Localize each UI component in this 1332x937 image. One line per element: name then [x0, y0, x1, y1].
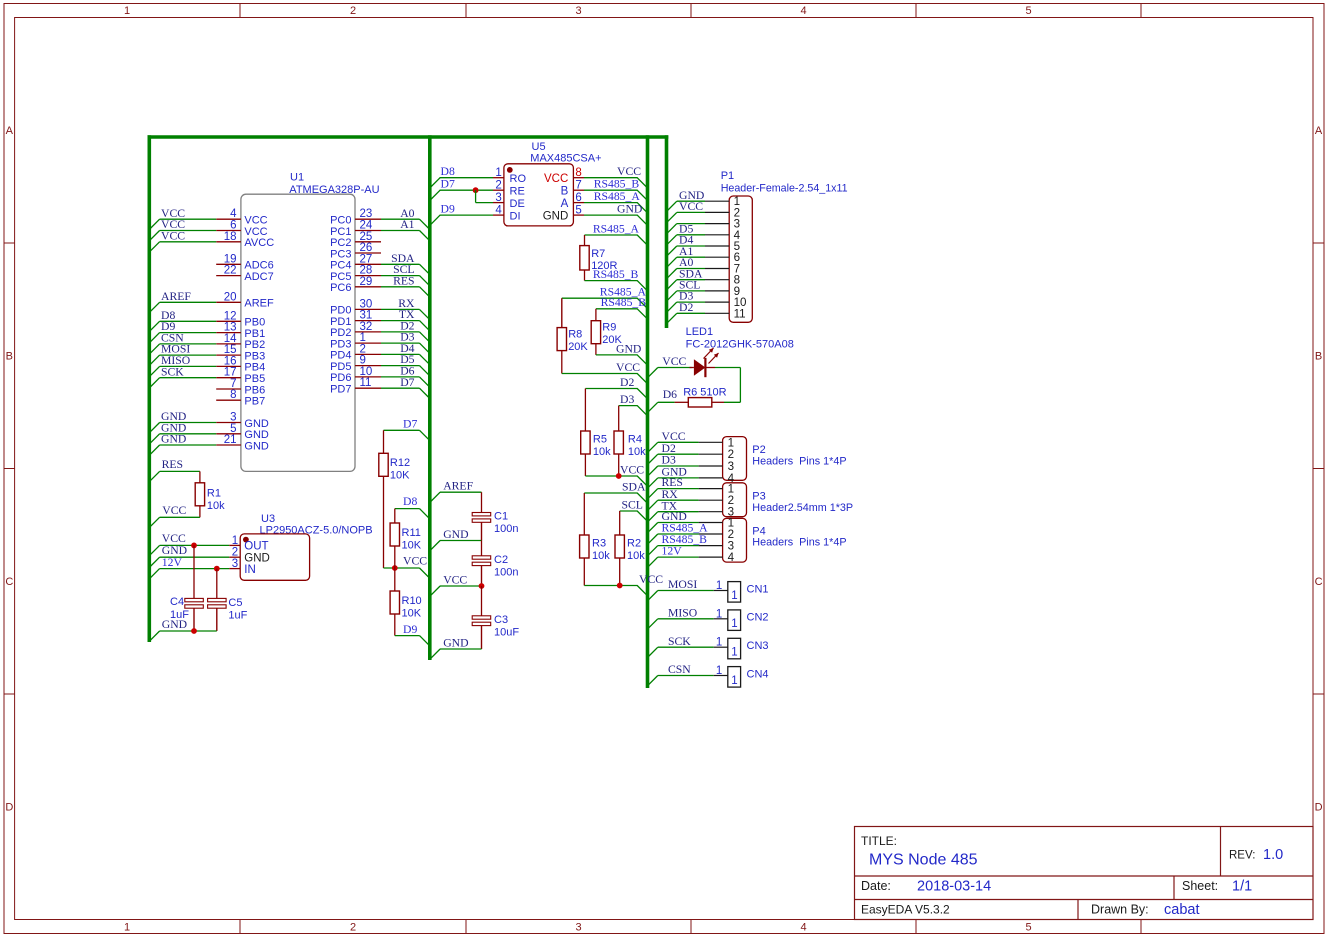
svg-text:9: 9	[360, 355, 366, 367]
svg-text:R6 510R: R6 510R	[683, 387, 726, 399]
svg-text:10k: 10k	[592, 550, 610, 562]
svg-text:D7: D7	[403, 418, 417, 431]
svg-text:IN: IN	[244, 564, 256, 576]
svg-text:10K: 10K	[402, 608, 422, 620]
svg-text:1: 1	[716, 665, 722, 677]
svg-text:11: 11	[360, 377, 372, 389]
svg-text:1: 1	[731, 618, 737, 630]
svg-text:20K: 20K	[602, 334, 622, 346]
svg-text:16: 16	[224, 355, 237, 367]
svg-text:SCK: SCK	[668, 635, 691, 648]
svg-text:26: 26	[360, 242, 373, 254]
svg-text:1: 1	[124, 922, 130, 934]
svg-text:U3: U3	[261, 513, 275, 525]
svg-text:2: 2	[350, 5, 356, 17]
svg-text:27: 27	[360, 253, 373, 265]
svg-text:14: 14	[224, 333, 237, 345]
svg-text:5: 5	[575, 205, 581, 217]
svg-text:R10: R10	[402, 595, 422, 607]
svg-text:PB2: PB2	[244, 339, 265, 351]
svg-text:4: 4	[495, 205, 502, 217]
svg-text:LED1: LED1	[686, 326, 714, 338]
svg-text:MYS Node 485: MYS Node 485	[869, 852, 978, 869]
svg-text:5: 5	[1025, 922, 1031, 934]
svg-text:10: 10	[360, 366, 373, 378]
svg-text:GND: GND	[244, 418, 269, 430]
svg-text:R4: R4	[628, 434, 642, 446]
svg-text:7: 7	[230, 378, 236, 390]
svg-text:VCC: VCC	[639, 573, 663, 586]
svg-text:CN1: CN1	[747, 583, 769, 595]
svg-text:A1: A1	[400, 218, 414, 231]
svg-text:1: 1	[716, 637, 722, 649]
svg-text:D2: D2	[679, 301, 693, 314]
svg-text:VCC: VCC	[244, 215, 267, 227]
svg-text:R9: R9	[602, 322, 616, 334]
svg-text:P3: P3	[752, 491, 765, 503]
svg-text:C2: C2	[494, 554, 508, 566]
svg-text:12V: 12V	[162, 556, 183, 569]
svg-text:PB3: PB3	[244, 350, 265, 362]
svg-text:Drawn By:: Drawn By:	[1091, 903, 1149, 917]
svg-text:8: 8	[575, 167, 581, 179]
svg-text:2: 2	[350, 922, 356, 934]
svg-text:2: 2	[232, 547, 238, 559]
svg-text:RS485_A: RS485_A	[593, 222, 640, 235]
svg-text:DE: DE	[510, 198, 525, 210]
svg-text:VCC: VCC	[620, 463, 644, 476]
svg-text:DI: DI	[510, 210, 521, 222]
svg-text:A: A	[561, 198, 569, 210]
svg-text:Headers Pins 1*4P: Headers Pins 1*4P	[752, 537, 846, 549]
svg-text:EasyEDA V5.3.2: EasyEDA V5.3.2	[861, 903, 950, 917]
svg-text:VCC: VCC	[662, 355, 686, 368]
svg-text:10k: 10k	[627, 550, 645, 562]
svg-text:GND: GND	[443, 528, 468, 541]
svg-text:10K: 10K	[390, 470, 410, 482]
svg-text:20: 20	[224, 291, 237, 303]
svg-text:PD6: PD6	[330, 372, 351, 384]
svg-text:4: 4	[230, 208, 237, 220]
svg-text:1: 1	[731, 590, 737, 602]
svg-text:SCL: SCL	[622, 498, 643, 511]
svg-text:Header-Female-2.54_1x11: Header-Female-2.54_1x11	[721, 182, 848, 194]
svg-text:PD3: PD3	[330, 338, 351, 350]
svg-text:Headers Pins 1*4P: Headers Pins 1*4P	[752, 456, 846, 468]
svg-text:R5: R5	[593, 434, 607, 446]
svg-text:CN3: CN3	[747, 640, 769, 652]
svg-text:D6: D6	[663, 388, 677, 401]
svg-text:ADC6: ADC6	[244, 260, 273, 272]
svg-text:21: 21	[224, 434, 237, 446]
svg-text:R2: R2	[627, 538, 641, 550]
svg-text:PB6: PB6	[244, 384, 265, 396]
svg-text:R8: R8	[568, 329, 582, 341]
svg-text:3: 3	[230, 412, 236, 424]
svg-text:B: B	[561, 186, 569, 198]
svg-text:D9: D9	[403, 623, 417, 636]
svg-text:cabat: cabat	[1164, 902, 1199, 918]
svg-text:Header2.54mm 1*3P: Header2.54mm 1*3P	[752, 502, 853, 514]
svg-text:VCC: VCC	[403, 554, 427, 567]
svg-text:GND: GND	[244, 440, 269, 452]
svg-text:GND: GND	[543, 210, 569, 222]
svg-text:PD4: PD4	[330, 350, 351, 362]
svg-text:15: 15	[224, 344, 237, 356]
svg-text:5: 5	[1025, 5, 1031, 17]
svg-text:D8: D8	[403, 495, 417, 508]
svg-text:19: 19	[224, 253, 237, 265]
svg-text:D7: D7	[400, 376, 414, 389]
svg-text:RES: RES	[162, 458, 183, 471]
svg-text:4: 4	[800, 5, 806, 17]
svg-text:4: 4	[800, 922, 806, 934]
svg-text:Sheet:: Sheet:	[1182, 879, 1218, 893]
svg-text:10k: 10k	[207, 500, 225, 512]
svg-text:13: 13	[224, 322, 237, 334]
svg-text:29: 29	[360, 276, 373, 288]
svg-text:23: 23	[360, 208, 373, 220]
svg-text:PC5: PC5	[330, 271, 351, 283]
svg-text:B: B	[1315, 351, 1322, 363]
svg-text:AVCC: AVCC	[244, 237, 274, 249]
svg-text:D3: D3	[620, 393, 634, 406]
svg-text:32: 32	[360, 321, 373, 333]
svg-text:2018-03-14: 2018-03-14	[917, 879, 991, 895]
svg-text:B: B	[6, 351, 13, 363]
svg-text:C4: C4	[170, 596, 184, 608]
svg-text:R7: R7	[591, 248, 605, 260]
svg-text:VCC: VCC	[161, 229, 185, 242]
svg-text:D7: D7	[441, 178, 455, 191]
svg-text:20K: 20K	[568, 341, 588, 353]
svg-text:PC0: PC0	[330, 215, 351, 227]
svg-text:120R: 120R	[591, 260, 617, 272]
svg-text:GND: GND	[617, 203, 642, 216]
svg-text:PB1: PB1	[244, 328, 265, 340]
svg-text:TITLE:: TITLE:	[861, 834, 897, 848]
svg-text:PC4: PC4	[330, 260, 351, 272]
svg-text:RO: RO	[510, 173, 527, 185]
svg-text:VCC: VCC	[679, 200, 703, 213]
svg-text:1: 1	[716, 580, 722, 592]
svg-text:1: 1	[232, 535, 238, 547]
svg-text:D9: D9	[441, 203, 455, 216]
svg-text:A: A	[6, 125, 14, 137]
svg-text:C3: C3	[494, 614, 508, 626]
svg-text:GND: GND	[161, 433, 186, 446]
svg-text:1: 1	[124, 5, 130, 17]
svg-text:3: 3	[575, 922, 581, 934]
svg-text:1: 1	[716, 608, 722, 620]
svg-text:30: 30	[360, 298, 373, 310]
svg-text:C: C	[5, 576, 13, 588]
svg-text:R3: R3	[592, 538, 606, 550]
svg-text:AREF: AREF	[443, 480, 473, 493]
svg-text:PB7: PB7	[244, 396, 265, 408]
svg-text:P1: P1	[721, 170, 734, 182]
svg-text:1uF: 1uF	[228, 610, 247, 622]
svg-text:6: 6	[575, 192, 581, 204]
svg-text:PC1: PC1	[330, 226, 351, 238]
svg-text:10uF: 10uF	[494, 627, 519, 639]
svg-text:R12: R12	[390, 457, 410, 469]
svg-text:PD7: PD7	[330, 384, 351, 396]
svg-text:3: 3	[575, 5, 581, 17]
svg-text:31: 31	[360, 310, 373, 322]
svg-text:OUT: OUT	[244, 541, 268, 553]
svg-text:4: 4	[728, 551, 735, 564]
svg-text:Date:: Date:	[861, 879, 891, 893]
svg-text:100n: 100n	[494, 523, 518, 535]
svg-text:1/1: 1/1	[1232, 879, 1252, 895]
svg-text:D: D	[5, 802, 13, 814]
svg-text:PD5: PD5	[330, 361, 351, 373]
svg-text:5: 5	[230, 423, 236, 435]
svg-text:MISO: MISO	[668, 606, 697, 619]
svg-text:PC3: PC3	[330, 248, 351, 260]
svg-text:ATMEGA328P-AU: ATMEGA328P-AU	[289, 184, 379, 196]
svg-text:SDA: SDA	[622, 480, 646, 493]
svg-text:AREF: AREF	[161, 290, 191, 303]
svg-text:RES: RES	[393, 274, 414, 287]
svg-text:7: 7	[575, 180, 581, 192]
svg-text:P2: P2	[752, 444, 765, 456]
svg-text:GND: GND	[162, 618, 187, 631]
svg-text:C5: C5	[228, 597, 242, 609]
svg-text:10k: 10k	[628, 446, 646, 458]
svg-text:3: 3	[232, 558, 238, 570]
svg-text:VCC: VCC	[244, 226, 267, 238]
svg-text:D2: D2	[620, 376, 634, 389]
svg-text:1: 1	[731, 675, 737, 687]
svg-text:MOSI: MOSI	[668, 578, 697, 591]
svg-text:1: 1	[731, 647, 737, 659]
svg-text:GND: GND	[244, 429, 269, 441]
svg-text:PB0: PB0	[244, 317, 265, 329]
svg-text:3: 3	[495, 192, 501, 204]
svg-text:RS485_B: RS485_B	[594, 178, 640, 191]
svg-text:FC-2012GHK-570A08: FC-2012GHK-570A08	[686, 339, 794, 351]
svg-text:R1: R1	[207, 488, 221, 500]
svg-text:CN2: CN2	[747, 612, 769, 624]
svg-text:VCC: VCC	[443, 573, 467, 586]
svg-text:PD0: PD0	[330, 305, 351, 317]
svg-text:6: 6	[230, 220, 236, 232]
svg-text:12: 12	[224, 310, 237, 322]
svg-text:2: 2	[495, 180, 501, 192]
svg-text:22: 22	[224, 265, 237, 277]
svg-text:AREF: AREF	[244, 298, 274, 310]
svg-text:CN4: CN4	[747, 668, 769, 680]
svg-text:C1: C1	[494, 511, 508, 523]
svg-text:VCC: VCC	[544, 173, 568, 185]
svg-text:D: D	[1315, 802, 1323, 814]
svg-text:12V: 12V	[662, 545, 683, 558]
svg-text:VCC: VCC	[617, 165, 641, 178]
svg-text:D8: D8	[441, 165, 455, 178]
svg-text:PC2: PC2	[330, 237, 351, 249]
svg-text:REV:: REV:	[1229, 850, 1255, 862]
svg-text:U5: U5	[532, 141, 546, 153]
svg-text:28: 28	[360, 265, 373, 277]
svg-text:PD2: PD2	[330, 327, 351, 339]
svg-text:PD1: PD1	[330, 316, 351, 328]
svg-text:2: 2	[360, 343, 366, 355]
svg-text:RS485_B: RS485_B	[601, 296, 647, 309]
svg-text:24: 24	[360, 220, 373, 232]
svg-text:11: 11	[734, 307, 746, 320]
svg-text:RE: RE	[510, 186, 525, 198]
svg-text:PB4: PB4	[244, 362, 265, 374]
svg-text:25: 25	[360, 231, 373, 243]
svg-text:U1: U1	[290, 172, 304, 184]
svg-text:ADC7: ADC7	[244, 271, 273, 283]
svg-text:C: C	[1315, 576, 1323, 588]
svg-text:10K: 10K	[402, 540, 422, 552]
svg-text:A: A	[1315, 125, 1323, 137]
svg-text:RS485_A: RS485_A	[594, 190, 641, 203]
svg-text:PC6: PC6	[330, 282, 351, 294]
svg-text:CSN: CSN	[668, 663, 691, 676]
svg-text:17: 17	[224, 367, 237, 379]
svg-text:GND: GND	[244, 553, 270, 565]
svg-text:VCC: VCC	[162, 504, 186, 517]
svg-text:18: 18	[224, 231, 237, 243]
svg-text:8: 8	[230, 389, 236, 401]
svg-text:10k: 10k	[593, 446, 611, 458]
svg-text:MAX485CSA+: MAX485CSA+	[530, 153, 601, 165]
svg-text:GND: GND	[443, 636, 468, 649]
svg-text:1: 1	[495, 167, 501, 179]
svg-text:1.0: 1.0	[1263, 847, 1283, 863]
svg-text:VCC: VCC	[616, 361, 640, 374]
svg-text:1: 1	[360, 332, 366, 344]
svg-text:PB5: PB5	[244, 373, 265, 385]
svg-text:100n: 100n	[494, 567, 518, 579]
svg-text:SCK: SCK	[161, 365, 184, 378]
svg-text:R11: R11	[402, 527, 421, 539]
